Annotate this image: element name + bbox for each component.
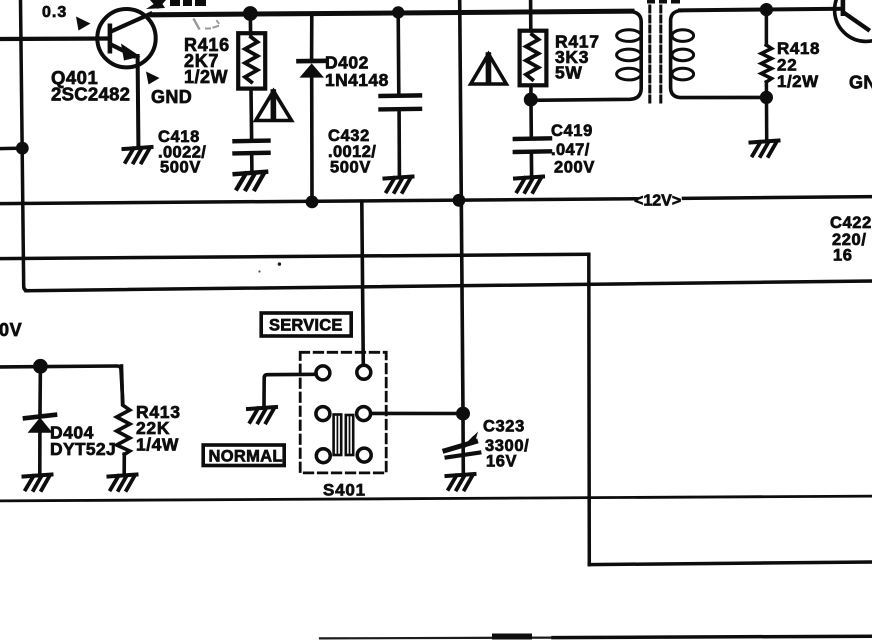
- svg-text:0.3: 0.3: [42, 4, 67, 21]
- bus4 bottom: [0, 496, 872, 501]
- label T402 cropped at top: [647, 0, 655, 4]
- ground D404: [24, 475, 52, 491]
- scan speckles: [278, 262, 281, 265]
- ground switch TL: [248, 407, 276, 423]
- wire switch TL to ground: [264, 374, 316, 405]
- wire D404/R413 top from left edge: [0, 366, 123, 402]
- svg-text:1N4148: 1N4148: [325, 70, 389, 90]
- wire stub at left edge to node: [0, 146, 22, 150]
- ground C323: [447, 474, 475, 490]
- capacitor C432: [381, 95, 421, 109]
- wire C418 to ground: [250, 155, 254, 171]
- ground C432: [385, 177, 413, 193]
- capacitor C323 (polarized): [445, 432, 479, 458]
- bus2: [0, 254, 589, 258]
- svg-text:S401: S401: [323, 481, 366, 500]
- wire left vertical bus: [21, 0, 29, 291]
- node junction transformer bottom right: [760, 91, 773, 104]
- wire bus1 to switch S401: [362, 202, 364, 367]
- wire R417 to node: [529, 85, 533, 99]
- wire R413 to ground: [122, 454, 126, 473]
- svg-text:C323: C323: [483, 418, 525, 436]
- wire Q401 emitter down: [136, 56, 141, 146]
- node junction R417 / C419 / transformer: [524, 93, 538, 107]
- wire C419 to ground: [530, 154, 534, 175]
- wire x531 vertical from top edge to R417: [529, 0, 533, 31]
- label SERVICE boxed: [261, 313, 351, 336]
- svg-text:200V: 200V: [554, 159, 595, 177]
- node junction bus1 / D402: [306, 196, 319, 209]
- resistor R413: [117, 366, 130, 455]
- node junction transformer top right: [760, 3, 773, 16]
- wire node to D404: [38, 367, 42, 414]
- switch S401 terminal top-left: [316, 366, 330, 380]
- svg-text:GND: GND: [151, 87, 192, 107]
- svg-text:SERVICE: SERVICE: [269, 317, 343, 335]
- svg-text:16V: 16V: [486, 453, 517, 471]
- switch S401 contact bars: [334, 415, 354, 456]
- svg-text:NORMAL: NORMAL: [209, 448, 283, 466]
- wire top right to Q?: [766, 7, 841, 12]
- wire C432 to ground: [397, 111, 401, 175]
- ground C419: [515, 177, 543, 193]
- wire top rail to R416: [249, 14, 253, 34]
- diode D404 DYT52J: [25, 415, 55, 433]
- wire R418 to ground: [765, 82, 769, 139]
- arrow under 0.3: [76, 17, 91, 31]
- wire base of Q401 from left edge: [0, 36, 109, 41]
- wire D404 to ground: [38, 433, 42, 473]
- wire switch MR to node: [371, 412, 463, 416]
- switch S401 terminal top-right: [357, 365, 371, 379]
- switch S401 terminal mid-right: [357, 407, 371, 421]
- ground Q401 emitter: [124, 147, 152, 163]
- wire x460 vertical from top edge to C323 node: [460, 0, 463, 414]
- resistor R417: [520, 31, 547, 86]
- svg-text:500V: 500V: [160, 159, 201, 177]
- switch S401 terminal bottom-right: [357, 448, 371, 462]
- wire top rail to C432: [396, 13, 400, 94]
- node junction top rail / C432: [392, 6, 404, 18]
- transistor (cropped, top right): [835, 0, 872, 41]
- transistor Q401: [97, 9, 155, 67]
- svg-text:16: 16: [833, 247, 853, 265]
- svg-text:1/2W: 1/2W: [777, 72, 819, 91]
- bus3: [26, 281, 872, 291]
- switch S401 terminal bottom-left: [316, 449, 330, 463]
- svg-text:C422: C422: [830, 214, 872, 232]
- wire y565 to right edge: [589, 562, 872, 565]
- wire D402 to bus1: [310, 78, 314, 202]
- ground C418: [235, 172, 266, 189]
- transformer T402 left winding bumps: [617, 30, 641, 80]
- svg-text:1/4W: 1/4W: [136, 435, 179, 455]
- wire node to C419: [529, 100, 533, 137]
- capacitor C419: [515, 138, 550, 152]
- cropped arrow and text at top edge: [146, 0, 166, 9]
- svg-text:<12V>: <12V>: [634, 193, 681, 210]
- resistor R418: [761, 45, 771, 82]
- capacitor C418: [235, 141, 269, 154]
- arrow near emitter: [146, 72, 160, 85]
- switch S401 terminal mid-left: [316, 407, 330, 421]
- svg-text:DYT52J: DYT52J: [50, 439, 116, 459]
- node junction D404: [33, 359, 48, 374]
- svg-text:1/2W: 1/2W: [184, 67, 228, 87]
- wire node to R418: [765, 10, 769, 45]
- node junction top rail / R416: [243, 6, 258, 21]
- ground R418: [751, 141, 779, 157]
- wire top rail to D402: [310, 13, 314, 59]
- diode D402 1N4148: [299, 61, 326, 78]
- transformer T402 right winding: [671, 10, 767, 97]
- switch S401 dashed body: [300, 352, 386, 473]
- svg-text:C419: C419: [551, 122, 593, 140]
- wire node to ground through C323: [461, 414, 465, 472]
- node junction left vertical: [16, 142, 29, 155]
- svg-text:5W: 5W: [555, 63, 583, 83]
- svg-text:500V: 500V: [330, 159, 371, 177]
- label NORMAL boxed: [203, 445, 284, 466]
- wire x589 vertical: [587, 254, 591, 564]
- wire node to transformer left winding bottom: [531, 12, 641, 101]
- resistor R416: [238, 33, 265, 88]
- bus1 +12V rail: [0, 199, 637, 204]
- transformer T402 core dashed lines: [648, 6, 651, 102]
- warning triangle 1: [256, 91, 292, 121]
- svg-text:GND: GND: [849, 73, 872, 93]
- wire top rail from Q401 collector to transformer: [152, 11, 632, 15]
- svg-text:.047/: .047/: [551, 141, 590, 159]
- scan noise marks: [194, 20, 199, 29]
- svg-text:0V: 0V: [0, 320, 22, 340]
- node junction bus1 / x460: [453, 194, 466, 207]
- node junction C323: [456, 407, 470, 421]
- wire R416 to C418: [249, 89, 253, 138]
- wire bottom edge line: [320, 636, 560, 639]
- warning triangle 2: [471, 54, 507, 84]
- transformer T402 right winding bumps: [672, 30, 694, 80]
- svg-text:2SC2482: 2SC2482: [51, 84, 130, 105]
- ground R413: [109, 475, 137, 491]
